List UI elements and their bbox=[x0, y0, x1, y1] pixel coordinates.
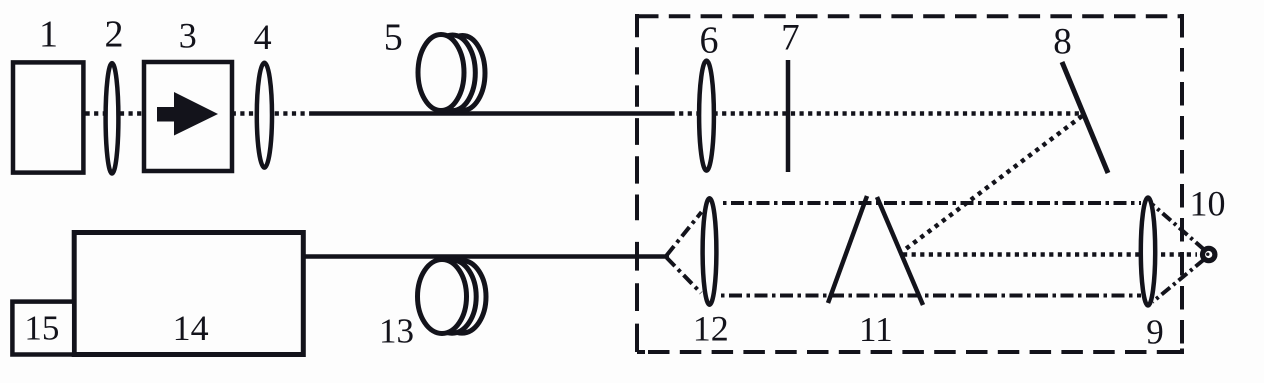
dashed enclosure box left edge with beam crossing ticks bbox=[637, 14, 645, 352]
svg-text:5: 5 bbox=[384, 17, 403, 59]
svg-text:3: 3 bbox=[179, 16, 197, 56]
mirror 8 bbox=[1062, 62, 1108, 173]
wire: diverging cone lower dash-dot from fiber tip to lens 12 bbox=[667, 258, 702, 294]
box 15 bbox=[12, 302, 74, 355]
dashed enclosure box bottom edge bbox=[648, 350, 1182, 354]
svg-text:14: 14 bbox=[173, 308, 209, 348]
wire: dotted beam axis from box 1 to solid fiber start bbox=[86, 111, 312, 116]
svg-text:8: 8 bbox=[1053, 22, 1072, 63]
fiber coil 5 (three loops on top of line) bbox=[418, 35, 485, 111]
lens 4 bbox=[257, 63, 272, 168]
dashed enclosure box bottom-right corner piece bbox=[1171, 349, 1182, 353]
aperture plate 7 bbox=[786, 60, 791, 172]
lens 6 bbox=[699, 61, 714, 171]
svg-text:6: 6 bbox=[700, 19, 719, 61]
detector 10 bbox=[1203, 248, 1215, 260]
svg-text:12: 12 bbox=[693, 309, 729, 349]
lens 12 bbox=[703, 198, 717, 304]
wire: converging cone upper dash-dot from lens 9 to detector 10 bbox=[1153, 205, 1205, 250]
wire: telescope tube bottom dash-dot line bbox=[721, 294, 1141, 298]
box 3 isolator bbox=[144, 62, 232, 171]
wire: solid fiber line top (to coil 5 and into dashed box) bbox=[311, 111, 671, 116]
wire: diagonal dotted beam from mirror 8 down to prism 11 bbox=[903, 116, 1082, 251]
svg-text:9: 9 bbox=[1146, 313, 1164, 352]
wire: diverging cone upper dash-dot from fiber tip to lens 12 bbox=[667, 212, 702, 256]
wire: horizontal dotted beam from prism 11 to detector 10 bbox=[903, 252, 1197, 257]
wire: converging cone lower dash-dot from lens 9 to detector 10 bbox=[1153, 260, 1205, 303]
box 1 bbox=[13, 62, 83, 172]
lens 2 bbox=[106, 63, 119, 173]
svg-text:4: 4 bbox=[254, 17, 272, 57]
dashed enclosure box right edge bbox=[1180, 14, 1184, 345]
arrow inside box 3 bbox=[157, 92, 218, 136]
wire: dotted beam inside dashed box to mirror 8 bbox=[671, 111, 1082, 116]
prism 11 left face bbox=[828, 196, 867, 303]
box 14 bbox=[74, 233, 303, 355]
fiber coil 13 (three loops hanging under line) bbox=[418, 260, 487, 334]
svg-text:13: 13 bbox=[379, 312, 414, 351]
svg-text:10: 10 bbox=[1190, 184, 1226, 224]
svg-text:15: 15 bbox=[24, 309, 59, 348]
prism 11 right face bbox=[877, 197, 923, 305]
svg-text:7: 7 bbox=[781, 18, 800, 59]
lens 9 bbox=[1141, 198, 1155, 306]
wire: telescope tube top dash-dot line bbox=[723, 201, 1141, 205]
svg-text:1: 1 bbox=[39, 13, 58, 55]
dashed enclosure box top edge bbox=[637, 14, 1182, 18]
svg-text:11: 11 bbox=[859, 310, 893, 349]
svg-text:2: 2 bbox=[105, 13, 124, 55]
wire: solid fiber line bottom from box 14 bbox=[303, 254, 669, 259]
